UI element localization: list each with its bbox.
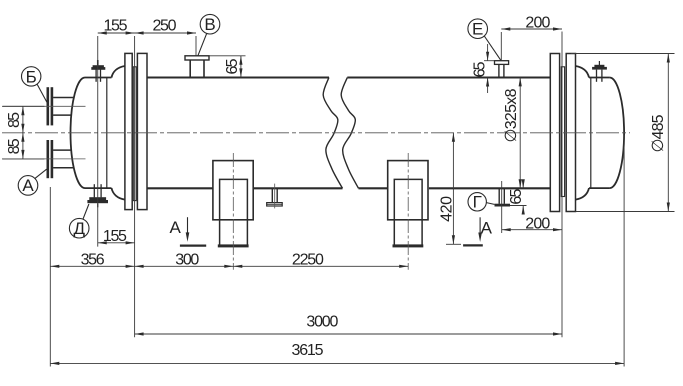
right head fillet bottom [576, 188, 590, 200]
drain nozzle between saddles [271, 188, 273, 202]
extension line flange gasket x=134.6 [134, 36, 136, 337]
nozzle В flange [185, 56, 209, 60]
label А circle [18, 176, 38, 196]
extension line vent/Д nozzle centers x=97.75 [97, 36, 99, 247]
dim 200 bottom [502, 229, 562, 231]
arrows dim 420 [452, 133, 455, 142]
section line A right [479, 217, 481, 234]
dim 85/85 lines [22, 106, 24, 159]
arrows dim 155 bottom [98, 241, 107, 244]
extension line left nozzle flange x=50.3 [49, 187, 51, 367]
section line A left [187, 217, 189, 234]
svg-text:200: 200 [525, 15, 550, 32]
svg-text:65: 65 [508, 189, 525, 205]
shell break wavy line left [323, 78, 342, 189]
label В circle [200, 14, 220, 34]
arrows dim 155 top [98, 31, 107, 34]
extension line right flange x=562 [561, 32, 563, 338]
left head top tangent line [85, 77, 112, 79]
right saddle support web [394, 179, 422, 244]
right head top tangent line [589, 77, 610, 79]
svg-text:A: A [170, 218, 182, 237]
left head elliptical dish [71, 78, 86, 189]
nozzle Д on left head bottom [93, 184, 95, 197]
dim 485 line [667, 54, 669, 212]
dim 325 line [519, 77, 521, 188]
svg-text:65: 65 [224, 58, 241, 74]
svg-text:65: 65 [471, 61, 488, 77]
left saddle support outer plate [213, 161, 253, 220]
dim 65 Г lines [522, 182, 524, 189]
dim 65 В line [240, 56, 242, 78]
left flange pair: head-side flange plate [125, 53, 132, 209]
svg-text:85: 85 [6, 112, 23, 128]
svg-text:3000: 3000 [306, 314, 338, 331]
svg-text:2250: 2250 [292, 252, 324, 269]
drain nozzle centerline [274, 184, 276, 209]
svg-text:356: 356 [81, 252, 105, 269]
right head bottom tangent line [589, 187, 610, 189]
arrows dim 65 Г [522, 179, 525, 188]
left head fillet top [112, 66, 125, 78]
right flange pair: shell-side flange plate [550, 54, 559, 212]
svg-text:155: 155 [103, 228, 127, 245]
right flange pair: gasket [561, 67, 564, 197]
left head fillet bottom [112, 188, 125, 200]
svg-text:В: В [204, 15, 215, 34]
nozzle В pipe [189, 60, 191, 78]
nozzle Б centerline [3, 105, 86, 107]
svg-text:85: 85 [6, 138, 23, 154]
arrows dim 65 В [239, 56, 242, 65]
label Д circle [69, 218, 89, 238]
extension line nozzle В center x=196 [195, 36, 197, 56]
dim 3000 [135, 333, 562, 335]
shell bottom wall [147, 187, 213, 189]
nozzle Г pipe [498, 188, 500, 204]
dim row 356/300/2250 [50, 265, 408, 267]
svg-text:250: 250 [153, 18, 177, 35]
nozzle Г flange [495, 204, 511, 207]
arrows dim row1 [50, 265, 59, 268]
vessel centerline [2, 132, 630, 134]
arrows dim 3615 [50, 362, 59, 365]
shell top wall [147, 76, 329, 78]
arrows dim 200 top [501, 27, 510, 30]
dim 3615 [50, 362, 624, 364]
arrows dim 200 bottom [502, 228, 511, 231]
left saddle support web [220, 179, 248, 244]
svg-text:200: 200 [525, 216, 550, 233]
svg-text:A: A [481, 218, 493, 237]
nozzle А flange [47, 140, 50, 178]
right head fillet top [576, 66, 590, 78]
extension line right head apex x=624.1 [623, 135, 625, 367]
left head bottom tangent line [85, 187, 112, 189]
extension line nozzle Г center [501, 181, 503, 233]
svg-text:∅485: ∅485 [650, 114, 667, 152]
label Г circle [468, 193, 486, 211]
arrows dim 65 Е [486, 52, 489, 61]
nozzle Б pipe [53, 97, 74, 99]
dim 155 bottom line [98, 242, 135, 244]
left saddle base plate [218, 244, 249, 247]
nozzle Е pipe [498, 64, 500, 77]
right saddle support outer plate [388, 161, 428, 220]
nozzle Б flange [47, 87, 50, 125]
dim 65 Е lines [487, 44, 489, 61]
extension line nozzle Е center [500, 32, 502, 61]
left flange pair: gasket [133, 67, 136, 201]
right head seam line [590, 78, 592, 189]
svg-text:Е: Е [472, 19, 483, 38]
arrows dim 485 [667, 54, 670, 63]
left saddle centerline [232, 153, 234, 270]
left head seam line [106, 78, 108, 189]
nozzle Е flange [495, 61, 509, 65]
label Е circle [468, 19, 488, 39]
vent nozzle on left head top [95, 70, 97, 82]
nozzle А pipe [53, 149, 71, 151]
dim 420 [452, 133, 454, 245]
svg-text:Д: Д [73, 219, 85, 238]
svg-text:∅325x8: ∅325x8 [503, 88, 520, 142]
svg-text:Г: Г [473, 192, 482, 211]
svg-text:155: 155 [104, 18, 128, 35]
arrows dim 85/85 [21, 106, 24, 115]
dim 155 top line [98, 32, 196, 34]
section arrow A left [186, 232, 190, 242]
svg-text:300: 300 [175, 252, 199, 269]
arrows dim 3000 [135, 332, 144, 335]
svg-text:Б: Б [26, 67, 37, 86]
small nozzle on right head top [596, 70, 598, 82]
svg-text:А: А [22, 176, 34, 195]
label Б circle [22, 67, 41, 86]
section arrow A right [478, 233, 482, 243]
right head elliptical dish [610, 78, 625, 189]
arrows dim 325 [519, 77, 522, 86]
nozzle А centerline [3, 158, 86, 160]
right saddle centerline [407, 153, 409, 270]
shell break wavy line right [341, 78, 358, 189]
right flange pair: head-side flange plate [566, 54, 575, 212]
svg-text:420: 420 [438, 196, 455, 222]
right saddle base plate [393, 244, 424, 247]
left flange pair: shell-side flange plate [137, 53, 147, 209]
svg-text:3615: 3615 [292, 342, 324, 359]
dim 200 top line [501, 28, 562, 30]
